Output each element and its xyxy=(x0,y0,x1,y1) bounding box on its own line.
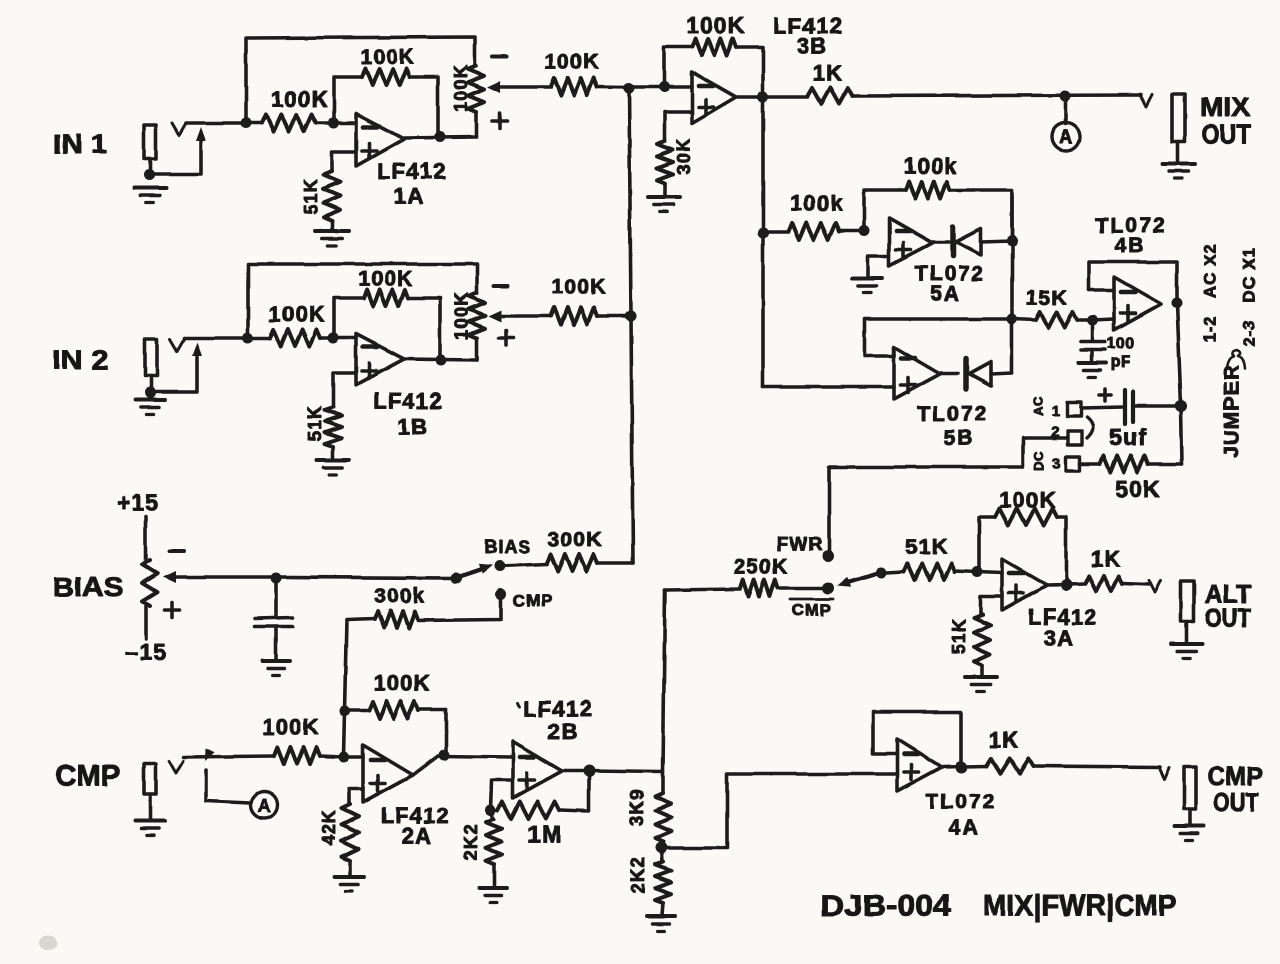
wiper arrow P1 xyxy=(487,81,551,93)
svg-text:51K: 51K xyxy=(301,178,321,215)
svg-text:100K: 100K xyxy=(358,268,413,291)
label pin 2 xyxy=(1051,424,1061,441)
wire R6 to ground xyxy=(663,183,667,196)
svg-text:250K: 250K xyxy=(733,556,788,579)
wire U3A minus input xyxy=(977,572,1002,573)
svg-text:–15: –15 xyxy=(125,639,167,665)
wire U1B minus input xyxy=(334,336,356,340)
svg-text:AC: AC xyxy=(1031,396,1046,416)
V contact mark IN1 xyxy=(172,123,186,135)
label R17 1M xyxy=(527,822,563,849)
resistor R3 51K label xyxy=(301,178,321,215)
resistor R21 250K xyxy=(665,580,823,597)
ground CMP jack xyxy=(135,821,165,836)
label P1 minus xyxy=(492,54,506,58)
svg-text:DJB-004: DJB-004 xyxy=(821,890,952,923)
label U1A LF412 xyxy=(377,159,447,184)
wire U3B output vertical xyxy=(761,97,765,387)
node U2A output xyxy=(439,750,450,761)
ground R16 xyxy=(334,877,364,892)
resistor R8 100k xyxy=(763,223,864,240)
ground IN1 jack xyxy=(134,188,166,203)
diode D1 xyxy=(933,227,1012,256)
resistor R24 51K label xyxy=(949,618,969,655)
label FWR xyxy=(777,535,823,556)
wire IN1 outer feedback top xyxy=(246,37,475,123)
wire IN2 jack to tap arrow xyxy=(154,357,197,392)
resistor R3b 51K xyxy=(325,407,342,447)
ground MIX OUT jack xyxy=(1163,164,1196,179)
label CMP (input) xyxy=(55,760,121,793)
svg-text:3K9: 3K9 xyxy=(627,789,647,826)
resistor R15 100K xyxy=(274,748,344,765)
label C1 100 xyxy=(1107,336,1135,353)
potentiometer P1 100K xyxy=(468,66,484,137)
wire U4A feedback xyxy=(873,712,961,767)
label U2B 2B xyxy=(548,720,579,745)
label JUMPER (rotated) xyxy=(1221,364,1244,458)
svg-text:5A: 5A xyxy=(931,283,962,306)
label R11 50K xyxy=(1115,476,1161,502)
wire CMP contact down xyxy=(418,594,501,620)
label SW2 CMPbar xyxy=(790,599,833,620)
svg-text:pF: pF xyxy=(1111,354,1132,371)
resistor R17 1M xyxy=(498,771,589,819)
ground R24 xyxy=(965,677,997,692)
resistor R22 51K label xyxy=(906,536,948,559)
svg-text:100: 100 xyxy=(1107,336,1135,353)
node SW2 CMPbar contact xyxy=(822,582,834,594)
label MIX OUT xyxy=(1202,119,1251,149)
label U3B 3B xyxy=(797,34,828,59)
node MIX OUT tap xyxy=(1060,91,1071,102)
wire U3B output xyxy=(736,95,808,99)
node U1B output xyxy=(436,355,447,366)
wiper arrow P3 xyxy=(163,571,276,583)
label SW1 CMP xyxy=(513,592,554,611)
pad 1 xyxy=(1067,402,1081,416)
label pin 1 xyxy=(1051,403,1061,420)
node U3A minus xyxy=(972,567,983,578)
wire U1A inner feedback left xyxy=(334,77,362,123)
node U5A minus xyxy=(859,226,870,237)
node C1 (mix bus) xyxy=(624,83,635,94)
svg-text:300K: 300K xyxy=(547,529,602,552)
label U4A 4A xyxy=(949,817,980,840)
resistor R3 51K xyxy=(324,171,341,221)
node IN2 bus junction xyxy=(626,311,637,322)
resistor R24 51K xyxy=(974,614,990,665)
op-amp U1B xyxy=(356,334,404,385)
resistor R8 100k label xyxy=(790,191,844,216)
resistor R14 100K xyxy=(345,702,446,719)
resistor R9 100k label xyxy=(904,154,958,179)
wire U5A feedback left xyxy=(864,190,906,231)
resistor R13 300k xyxy=(375,611,418,628)
svg-text:51K: 51K xyxy=(305,405,325,442)
label U4B TL072 xyxy=(1096,215,1167,238)
svg-text:IN 1: IN 1 xyxy=(53,129,107,159)
node U3B output xyxy=(758,92,769,103)
svg-text:BIAS: BIAS xyxy=(484,537,531,557)
svg-text:30K: 30K xyxy=(674,138,694,175)
wire R3 to ground xyxy=(330,221,334,230)
svg-text:3A: 3A xyxy=(1044,626,1075,651)
node IN1 jack junction xyxy=(144,170,155,181)
node 5uf junction xyxy=(1175,400,1187,412)
resistor R20 2K2 xyxy=(655,848,671,903)
wire alt bus vertical xyxy=(663,590,665,793)
svg-text:LF412: LF412 xyxy=(373,389,443,414)
svg-text:3B: 3B xyxy=(797,34,828,59)
svg-text:TL072: TL072 xyxy=(918,403,989,426)
wire U3A output xyxy=(1047,584,1085,585)
svg-text:LF412: LF412 xyxy=(523,697,593,722)
ground IN2 jack xyxy=(135,400,165,415)
svg-text:IN 2: IN 2 xyxy=(52,345,108,375)
resistor R13 300k label xyxy=(374,585,426,608)
wire U1A plus input xyxy=(332,152,356,171)
label CMP OUT 1 xyxy=(1208,761,1263,791)
label U2A 2A xyxy=(402,824,433,849)
resistor R1b 100K label xyxy=(268,302,325,327)
resistor R9 100k xyxy=(906,182,950,199)
svg-text:2A: 2A xyxy=(402,824,433,849)
op-amp U1A xyxy=(356,114,404,166)
wire R16 to ground xyxy=(348,861,352,876)
potentiometer P2 100K xyxy=(469,293,485,360)
wire U4B plus input xyxy=(1092,319,1114,320)
resistor R2b 100K label xyxy=(358,268,413,291)
resistor R1 100K xyxy=(246,115,334,132)
wire U4B output vertical xyxy=(1177,303,1182,464)
resistor R19 3K9 xyxy=(655,793,671,842)
wire R18 to ground xyxy=(492,864,496,887)
node SW1 CMP contact xyxy=(496,589,507,600)
svg-text:2K2: 2K2 xyxy=(628,857,648,894)
node D1 output xyxy=(1007,236,1018,247)
label MIX xyxy=(1200,92,1250,122)
wire bias row xyxy=(276,577,456,578)
resistor R23 100K xyxy=(995,509,1057,526)
resistor R11 50K xyxy=(1080,456,1182,473)
caption DJB-004 xyxy=(821,890,952,923)
wire IN1 input row xyxy=(186,121,246,125)
switch SW1 wiper xyxy=(458,564,493,577)
node SW1 BIAS contact xyxy=(495,561,506,572)
label AC (rotated) xyxy=(1031,396,1046,416)
resistor R20 2K2 label xyxy=(628,857,648,894)
resistor R18 2K2 xyxy=(486,810,502,864)
potentiometer P2 100K label xyxy=(452,292,472,340)
wire R13 to 2A fb node xyxy=(345,619,375,711)
wire pad1 to cap xyxy=(1081,407,1123,408)
ground U5A plus xyxy=(852,278,882,293)
jumper bracket curve xyxy=(1087,417,1093,438)
node B2 xyxy=(328,333,339,344)
switch SW2 wiper xyxy=(837,573,879,587)
resistor R6 30K xyxy=(657,141,673,183)
label U4A TL072 xyxy=(926,791,997,814)
svg-text:100K: 100K xyxy=(360,46,415,69)
resistor R5 100K xyxy=(692,39,736,56)
svg-text:100K: 100K xyxy=(551,276,606,299)
label U4B 4B xyxy=(1115,235,1146,258)
resistor R19 3K9 label xyxy=(627,789,647,826)
capacitor C1 100pF xyxy=(1081,320,1105,362)
resistor R4 100K xyxy=(551,78,630,95)
resistor R2 100K xyxy=(362,69,410,86)
label DC (rotated) xyxy=(1032,451,1047,471)
label U3A LF412 xyxy=(1028,605,1098,630)
jack MIX OUT xyxy=(1172,94,1185,163)
resistor R4b 100K xyxy=(551,308,631,325)
jumper brace xyxy=(1227,350,1245,369)
label P2 plus xyxy=(499,331,514,346)
tap arrow CMP xyxy=(205,748,250,803)
svg-text:4B: 4B xyxy=(1115,235,1146,258)
svg-text:50K: 50K xyxy=(1115,476,1161,502)
node SW2 right xyxy=(876,568,887,579)
wire fb node to input row xyxy=(344,711,345,757)
label CMP OUT 2 xyxy=(1214,787,1259,817)
capacitor C3 bias xyxy=(255,578,292,660)
node U1A output xyxy=(435,132,446,143)
svg-text:100K: 100K xyxy=(268,302,325,327)
label IN 1 xyxy=(53,129,107,159)
V contact mark CMP xyxy=(169,761,183,773)
label pin 3 xyxy=(1052,456,1062,473)
potentiometer P3 BIAS xyxy=(143,560,158,606)
wire U2A plus input xyxy=(349,789,363,804)
svg-text:OUT: OUT xyxy=(1202,119,1251,149)
label U1A 1A xyxy=(394,184,425,209)
resistor R26 1K label xyxy=(989,728,1020,753)
wire IN2 outer feedback top xyxy=(248,264,477,338)
wire U1B plus input xyxy=(333,373,356,407)
jack J2 (IN 2) xyxy=(145,339,157,392)
svg-text:OUT: OUT xyxy=(1214,787,1259,817)
wire pad2 to FWR node xyxy=(829,438,1068,552)
meter circle A (cmp) xyxy=(251,792,278,819)
svg-text:4A: 4A xyxy=(949,817,980,840)
resistor R12 300K label xyxy=(547,529,602,552)
capacitor C2 5uf xyxy=(1125,390,1176,424)
wire U1B output xyxy=(404,359,477,360)
label C1 pF xyxy=(1111,354,1132,371)
caption MIX FWR CMP xyxy=(983,890,1177,923)
resistor R3b 51K label xyxy=(305,405,325,442)
svg-text:100K: 100K xyxy=(373,671,430,696)
svg-text:CMP: CMP xyxy=(55,760,121,793)
wiper arrow P2 xyxy=(488,310,551,322)
label U5A TL072 xyxy=(915,263,986,286)
svg-text:TL072: TL072 xyxy=(926,791,997,814)
wire mix out xyxy=(853,95,1141,96)
meter circle A (mix) xyxy=(1052,123,1080,151)
resistor R1 100K label xyxy=(271,87,328,112)
svg-text:2-3 DC X1: 2-3 DC X1 xyxy=(1240,247,1259,347)
resistor R4 100K label xyxy=(544,51,599,74)
V contact mark IN2 xyxy=(170,339,184,351)
paper smudge xyxy=(39,936,57,950)
ground R18 xyxy=(479,888,507,903)
label U2B LF412 xyxy=(517,697,593,722)
wire U3A feedback left xyxy=(979,517,995,572)
wire mix bus vertical xyxy=(629,88,633,563)
resistor R18 2K2 label xyxy=(461,824,481,861)
ground C1 xyxy=(1078,363,1106,378)
svg-text:1: 1 xyxy=(1051,403,1061,420)
diode D2 xyxy=(940,359,1012,389)
resistor R4b 100K label xyxy=(551,276,606,299)
resistor R2b 100K xyxy=(364,290,408,307)
node U4B output xyxy=(1172,298,1183,309)
node D1 (U3B fb) xyxy=(659,82,670,93)
label U2A LF412 xyxy=(380,804,450,829)
svg-text:+15: +15 xyxy=(117,490,160,516)
resistor R12 300K xyxy=(547,555,633,572)
label ALT xyxy=(1205,579,1251,609)
svg-text:1-2 AC X2: 1-2 AC X2 xyxy=(1201,243,1220,343)
label U3B LF412 xyxy=(773,14,843,39)
svg-text:JUMPER: JUMPER xyxy=(1221,364,1244,458)
label jumper 1-2 AC X2 (rotated) xyxy=(1201,243,1220,343)
wire to U3B minus xyxy=(629,85,692,89)
svg-text:5B: 5B xyxy=(944,427,975,450)
resistor R16 42K label xyxy=(319,809,339,846)
ground R3b xyxy=(317,460,349,475)
node U2A minus xyxy=(339,752,350,763)
wire U5B minus path xyxy=(865,319,1012,356)
V contact mark CMP OUT xyxy=(1159,768,1169,780)
svg-text:1K: 1K xyxy=(989,728,1020,753)
op-amp U3A xyxy=(1002,559,1047,610)
ground R6 xyxy=(648,197,680,212)
node U2A fb junction xyxy=(340,706,351,717)
resistor R25 1K xyxy=(1085,576,1150,591)
resistor R2 100K label xyxy=(360,46,415,69)
label U3A 3A xyxy=(1044,626,1075,651)
node A2 xyxy=(243,333,254,344)
node U4A output xyxy=(955,761,967,773)
svg-text:2B: 2B xyxy=(548,720,579,745)
wire pot to -15 xyxy=(144,606,148,639)
wire U3B feedback left xyxy=(664,47,692,87)
wire R3b to ground xyxy=(331,447,335,459)
wire R20 to ground xyxy=(662,903,663,915)
jack ALT OUT xyxy=(1181,581,1194,643)
wire U1A output xyxy=(404,137,476,138)
svg-text:3: 3 xyxy=(1052,456,1062,473)
resistor R1b 100K xyxy=(248,330,334,347)
resistor R7 1K xyxy=(808,88,853,104)
svg-text:100K: 100K xyxy=(262,715,319,740)
op-amp U3B xyxy=(692,72,736,123)
svg-text:100K: 100K xyxy=(271,87,328,112)
wire U2B output xyxy=(562,771,663,772)
label SW1 BIAS xyxy=(484,537,531,557)
op-amp U5B xyxy=(894,347,940,399)
svg-text:1K: 1K xyxy=(1091,547,1122,572)
label ALT OUT xyxy=(1205,603,1251,633)
svg-text:1B: 1B xyxy=(398,415,429,440)
svg-text:LF412: LF412 xyxy=(377,159,447,184)
label -15 xyxy=(125,639,167,665)
node FWR xyxy=(822,550,834,562)
wire CMP input row xyxy=(183,756,274,757)
svg-text:5uf: 5uf xyxy=(1109,424,1147,450)
label BIAS xyxy=(53,572,124,602)
node switch common xyxy=(451,573,462,584)
svg-text:FWR: FWR xyxy=(777,535,823,556)
svg-text:100K: 100K xyxy=(544,51,599,74)
potentiometer P1 100K label xyxy=(451,64,471,112)
tap arrow IN2 xyxy=(192,342,202,356)
svg-text:1M: 1M xyxy=(527,822,563,849)
resistor R5 100K label xyxy=(686,12,746,38)
label IN 2 xyxy=(52,345,108,375)
V contact mark ALT OUT xyxy=(1149,580,1161,592)
wire U1B inner feedback left xyxy=(334,298,364,338)
pad 3 xyxy=(1066,457,1080,471)
svg-text:A: A xyxy=(1059,128,1073,149)
node U2B output xyxy=(583,765,595,777)
V contact mark MIX OUT xyxy=(1140,95,1152,107)
svg-text:100K: 100K xyxy=(686,12,746,38)
wire U2A output xyxy=(413,756,513,775)
label bias plus xyxy=(165,603,180,618)
resistor R22 51K xyxy=(886,564,977,581)
label jumper 2-3 DC X1 (rotated) xyxy=(1240,247,1259,347)
svg-text:A: A xyxy=(258,796,271,816)
wire U1A minus input xyxy=(334,121,356,125)
label U5A 5A xyxy=(931,283,962,306)
jack CMP OUT xyxy=(1184,767,1196,825)
label U5B TL072 xyxy=(918,403,989,426)
resistor R6 30K label xyxy=(674,138,694,175)
resistor R23 100K label xyxy=(999,488,1056,513)
wire U1B inner feedback right xyxy=(408,298,440,360)
svg-text:OUT: OUT xyxy=(1205,603,1251,633)
wire divider to U4A xyxy=(661,774,897,848)
jack J3 (CMP) xyxy=(144,764,156,819)
label P2 minus xyxy=(494,284,508,288)
svg-text:1K: 1K xyxy=(813,61,844,86)
resistor R14 100K label xyxy=(373,671,430,696)
svg-text:42K: 42K xyxy=(319,809,339,846)
ground R3 xyxy=(315,231,349,246)
svg-text:CMP: CMP xyxy=(792,601,833,620)
ground C3 xyxy=(262,661,290,676)
op-amp U2A xyxy=(363,745,413,802)
wire U5A plus input xyxy=(868,256,889,277)
node U4B plus junction xyxy=(1087,315,1098,326)
label U1B 1B xyxy=(398,415,429,440)
ground CMP OUT jack xyxy=(1175,826,1204,841)
svg-text:MIX|FWR|CMP: MIX|FWR|CMP xyxy=(983,890,1177,923)
svg-text:100k: 100k xyxy=(790,191,844,216)
node rectifier branch xyxy=(758,228,769,239)
svg-text:1A: 1A xyxy=(394,184,425,209)
op-amp U4B xyxy=(1114,277,1161,330)
ground R20 xyxy=(647,916,675,931)
wire U3A plus input xyxy=(980,596,1002,614)
svg-text:15K: 15K xyxy=(1026,287,1068,310)
label U1B LF412 xyxy=(373,389,443,414)
node B1 xyxy=(328,118,339,129)
wire U2B plus input xyxy=(491,780,513,810)
